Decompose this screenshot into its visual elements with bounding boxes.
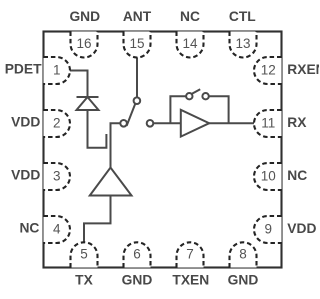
svg-text:GND: GND xyxy=(69,9,100,24)
svg-text:RXEN: RXEN xyxy=(287,62,319,77)
svg-text:3: 3 xyxy=(53,169,61,184)
svg-text:12: 12 xyxy=(261,63,276,78)
svg-text:VDD: VDD xyxy=(287,221,316,236)
svg-text:GND: GND xyxy=(228,273,259,288)
svg-text:VDD: VDD xyxy=(11,167,40,182)
svg-text:RX: RX xyxy=(287,115,307,130)
svg-text:13: 13 xyxy=(235,36,250,51)
svg-text:8: 8 xyxy=(239,247,247,262)
svg-text:2: 2 xyxy=(53,116,61,131)
svg-text:CTL: CTL xyxy=(229,9,256,24)
svg-text:NC: NC xyxy=(287,168,307,183)
svg-text:6: 6 xyxy=(133,247,141,262)
svg-text:15: 15 xyxy=(129,36,144,51)
svg-text:14: 14 xyxy=(182,36,198,51)
svg-text:4: 4 xyxy=(53,222,61,237)
svg-text:9: 9 xyxy=(265,222,273,237)
svg-text:TXEN: TXEN xyxy=(172,273,209,288)
svg-text:NC: NC xyxy=(19,220,39,235)
svg-text:ANT: ANT xyxy=(123,9,152,24)
svg-text:7: 7 xyxy=(186,247,194,262)
svg-text:5: 5 xyxy=(80,247,88,262)
svg-text:VDD: VDD xyxy=(11,114,40,129)
svg-text:10: 10 xyxy=(261,169,276,184)
svg-text:TX: TX xyxy=(75,273,93,288)
svg-text:1: 1 xyxy=(53,63,61,78)
svg-text:PDET: PDET xyxy=(5,61,42,76)
svg-text:11: 11 xyxy=(261,116,275,131)
svg-text:GND: GND xyxy=(122,273,153,288)
svg-text:16: 16 xyxy=(76,36,91,51)
svg-text:NC: NC xyxy=(180,9,200,24)
